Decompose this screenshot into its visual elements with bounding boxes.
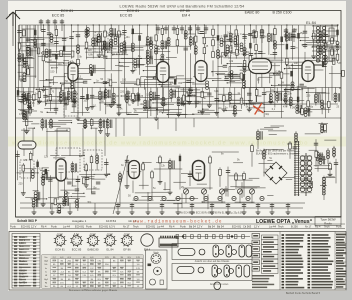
svg-text:ECH 81: ECH 81 [146,224,156,228]
svg-text:Lw 44: Lw 44 [157,224,164,228]
svg-text:6,8k: 6,8k [88,54,93,57]
antenna [6,12,20,46]
svg-text:6,3 V: 6,3 V [90,234,96,236]
tube socket ECC 85 [72,236,82,246]
FM tuner cluster wiring [15,98,112,213]
tube V2 ECH81 [157,62,169,83]
dial assembly box [146,250,168,289]
tube V6 ECC85 FM [56,159,66,181]
RF IF section wiring [17,24,342,120]
svg-text:12 V: 12 V [31,224,37,228]
svg-text:EABC 80: EABC 80 [87,248,99,252]
svg-text:Bd 54: Bd 54 [208,224,215,228]
svg-text:2M: 2M [292,107,295,110]
connector comb [159,238,178,247]
power section wiring [249,122,339,200]
svg-text:2M: 2M [219,56,222,59]
svg-text:150: 150 [50,71,55,74]
svg-text:EABC 80: EABC 80 [245,11,260,15]
svg-text:10n: 10n [288,93,293,96]
svg-text:220: 220 [19,183,24,186]
svg-text:Ausgabe 1: Ausgabe 1 [72,219,87,223]
long wire y104 [180,103,338,105]
svg-text:6,3 V: 6,3 V [57,234,63,236]
svg-text:6,3 V: 6,3 V [74,234,80,236]
svg-text:ECH 81: ECH 81 [61,9,74,13]
svg-text:Gemessen mit Röhrenvoltmeter g: Gemessen mit Röhrenvoltmeter gegen Chass… [69,289,118,292]
svg-text:EM 4: EM 4 [144,248,151,252]
svg-text:30p: 30p [66,192,71,195]
lower panel frame [9,232,346,291]
chassis layout strips [172,244,252,290]
voltage table [42,255,143,292]
dial lamp circle [141,234,153,246]
svg-text:Rö 4: Rö 4 [41,224,47,228]
tube socket EF 86 [122,236,132,246]
svg-text:ECH 81: ECH 81 [21,224,31,228]
svg-text:12 V: 12 V [197,224,203,228]
svg-text:Funk: Funk [336,224,342,228]
title strip top line [16,216,342,218]
svg-text:Funk: Funk [51,224,57,228]
svg-text:ECC 85: ECC 85 [52,14,65,18]
trimmer row [39,19,64,31]
tube V4 EABC80 [249,59,272,74]
dark component clusters [64,25,338,112]
schematic frame [16,11,342,218]
svg-text:10n: 10n [126,36,131,39]
svg-text:ECC 85: ECC 85 [72,248,82,252]
svg-text:15p: 15p [300,32,305,35]
parts list [280,232,347,291]
svg-text:100: 100 [122,79,127,82]
svg-text:10n: 10n [218,107,223,110]
FM dipole [18,141,36,149]
svg-text:Tech: Tech [278,224,284,228]
svg-text:6,3 V: 6,3 V [107,234,113,236]
svg-text:150: 150 [178,82,183,85]
IF transformer cans [95,32,245,56]
svg-text:EL 84: EL 84 [107,248,114,252]
svg-text:10n: 10n [294,46,299,49]
RF IF interconnect wires [20,28,341,117]
tube V5 EL84 upper [302,61,314,82]
svg-text:Rö 4: Rö 4 [315,224,321,228]
heater bus taps [32,196,291,214]
tube V3 EF89 [195,61,207,82]
svg-text:220: 220 [306,94,311,97]
svg-text:Ansicht von oben auf das Chass: Ansicht von oben auf das Chassis [195,260,230,263]
svg-text:Lw 44: Lw 44 [269,224,276,228]
svg-text:Funk: Funk [86,224,92,228]
tube socket EABC 80 [88,236,98,246]
svg-text:Rö 4: Rö 4 [169,224,175,228]
svg-text:EL 84: EL 84 [306,21,316,25]
svg-text:Beiheft Funk-Technik Band 5: Beiheft Funk-Technik Band 5 [286,291,321,295]
dial cord diagram [174,235,250,239]
svg-text:1M: 1M [281,81,284,84]
svg-text:Ck 563: Ck 563 [243,224,252,228]
svg-text:EM 4: EM 4 [182,14,190,18]
svg-text:Nr 17: Nr 17 [305,224,312,228]
svg-text:ECH 81: ECH 81 [55,248,65,252]
svg-text:220: 220 [120,90,125,93]
svg-text:30p: 30p [265,113,270,116]
power transformer TR1 [294,141,312,196]
svg-text:EF 89: EF 89 [180,9,190,13]
heater bus 2 [20,207,303,209]
svg-text:ECC 85: ECC 85 [120,14,133,18]
svg-text:6,3 V: 6,3 V [109,224,115,228]
svg-text:ECH 81: ECH 81 [99,224,109,228]
svg-text:30p: 30p [309,106,314,109]
svg-text:30p: 30p [246,51,251,54]
svg-text:30p: 30p [87,201,92,204]
antenna input cluster [17,25,39,120]
potentiometer row [183,189,254,203]
svg-text:12 V: 12 V [254,224,260,228]
AF section wiring [113,118,266,214]
terminal strip legend [12,234,40,289]
tube sockets row [54,234,178,252]
long wire y46 [18,45,150,47]
type box [315,217,341,226]
coil legend cells [262,235,279,273]
svg-text:Nr 17: Nr 17 [123,224,130,228]
svg-text:B 250 C100: B 250 C100 [273,11,292,15]
svg-text:220: 220 [58,63,63,66]
svg-text:ECH 81: ECH 81 [75,224,85,228]
mid bus [16,87,341,89]
tube socket EL 84 [105,236,115,246]
svg-text:Schalt 563 P: Schalt 563 P [17,219,38,223]
output transformer TR2 [316,26,325,62]
svg-text:www.radiomuseum-bocket.de www: www.radiomuseum-bocket.de www.radiomuseu… [11,140,309,146]
svg-text:Tech: Tech [133,224,139,228]
svg-text:2M: 2M [338,62,341,65]
svg-text:Ansicht von unten: Ansicht von unten [210,283,229,286]
tube socket ECH 81 [55,236,65,246]
tube V1 ECC85 [68,63,78,81]
footer data row [10,224,345,229]
svg-text:ECH 81: ECH 81 [232,224,242,228]
svg-text:Tech: Tech [324,224,330,228]
band switch legend [252,234,274,289]
svg-text:B 250: B 250 [291,224,298,228]
section divider [16,117,342,119]
red cross mark [254,104,264,115]
tube V7 EM4 [129,161,140,179]
top supply bus [19,24,339,26]
svg-text:Bd 54: Bd 54 [189,224,196,228]
svg-text:10.8.54: 10.8.54 [106,219,116,223]
long wire y58 [228,57,338,59]
svg-text:Funk: Funk [10,224,16,228]
svg-text:Funk: Funk [180,224,186,228]
svg-text:2M: 2M [198,101,201,104]
svg-text:220: 220 [88,49,93,52]
svg-text:EF 86: EF 86 [123,248,131,252]
svg-text:ECH 81: ECH 81 [127,9,140,13]
svg-text:www.radiomuseum-bocket.de: www.radiomuseum-bocket.de [133,219,222,224]
svg-text:LOEWE Radio 563W mit UKW: LOEWE Radio 563W mit UKW und Bandbreite … [120,5,245,9]
svg-text:10n: 10n [294,62,299,65]
scan tint band [8,137,346,147]
heater bus [20,202,305,204]
svg-text:Bd 54: Bd 54 [217,224,224,228]
tube row extra wiring [18,48,344,95]
svg-text:Skala: Skala [153,252,159,254]
svg-text:Lw 44: Lw 44 [63,224,70,228]
tube V8 EL84 [193,161,205,181]
svg-text:220: 220 [322,182,327,185]
switch band wiring [17,88,340,118]
svg-text:6,3 V: 6,3 V [124,234,130,236]
bridge rectifier GR1 [265,162,287,184]
